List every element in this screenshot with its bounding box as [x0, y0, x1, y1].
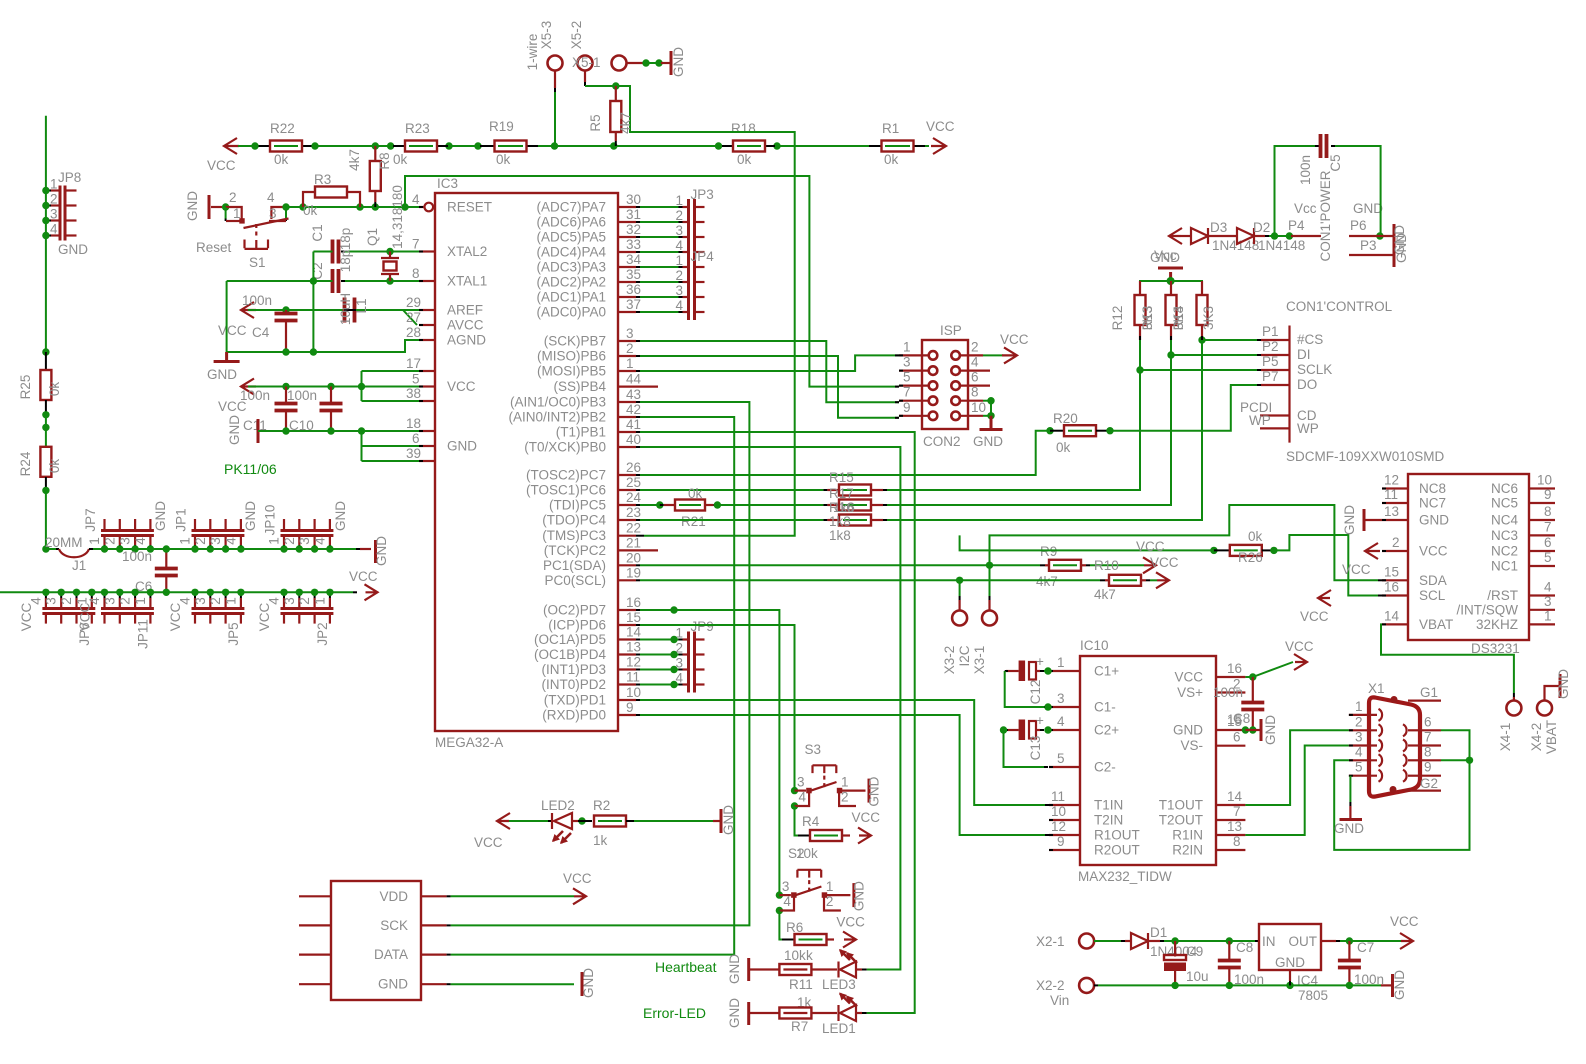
VCC arrow ISP: [983, 354, 1003, 356]
capacitor C13: [1019, 720, 1026, 741]
svg-text:VCC: VCC: [836, 915, 865, 930]
svg-text:C2-: C2-: [1094, 760, 1116, 775]
op-amp U2 DS3231 box: [1408, 474, 1529, 640]
svg-text:C12: C12: [1028, 680, 1043, 705]
svg-text:1: 1: [223, 597, 238, 605]
svg-text:VCC: VCC: [218, 323, 247, 338]
svg-text:12: 12: [1051, 819, 1066, 834]
svg-text:1: 1: [178, 537, 193, 545]
svg-text:100n: 100n: [287, 388, 317, 403]
svg-text:11: 11: [1051, 789, 1065, 804]
svg-text:C1+: C1+: [1094, 664, 1119, 679]
IC3 left pin 39: [419, 460, 435, 462]
capacitor C8 100n: [1228, 941, 1230, 960]
svg-text:Vcc: Vcc: [1294, 201, 1317, 216]
svg-text:1: 1: [1057, 655, 1065, 670]
resistor R15: [640, 519, 823, 521]
svg-text:AREF: AREF: [447, 303, 483, 318]
svg-text:R18: R18: [731, 121, 756, 136]
svg-text:NC4: NC4: [1491, 513, 1518, 528]
svg-text:(RXD)PD0: (RXD)PD0: [542, 708, 606, 723]
wire PB1 to LED1: [640, 432, 915, 1013]
svg-text:Vcc: Vcc: [1154, 248, 1177, 263]
svg-text:100n: 100n: [240, 388, 270, 403]
svg-text:0k: 0k: [274, 152, 289, 167]
svg-text:1: 1: [826, 879, 834, 894]
wire 7805 out: [1321, 940, 1336, 942]
svg-text:12: 12: [1384, 473, 1399, 488]
svg-text:X3-1: X3-1: [972, 646, 987, 675]
svg-text:JP8: JP8: [58, 170, 81, 185]
svg-text:Vin: Vin: [1050, 993, 1069, 1008]
resistor R14 3k3: [1201, 281, 1203, 295]
IC3 right pin 13 (OC1B)PD4: [618, 653, 636, 655]
IC3 right pin 37 (ADC0)PA0: [618, 311, 636, 313]
svg-text:1N4148: 1N4148: [1258, 238, 1305, 253]
svg-text:VBAT: VBAT: [1419, 617, 1453, 632]
header JP10: [281, 531, 334, 536]
svg-text:+: +: [1036, 713, 1044, 728]
svg-text:GND: GND: [153, 501, 168, 531]
svg-text:35: 35: [626, 267, 641, 282]
wire SDA staircase to DS3231: [990, 505, 1379, 580]
svg-text:(ADC5)PA5: (ADC5)PA5: [536, 230, 606, 245]
svg-text:(MOSI)PB5: (MOSI)PB5: [537, 364, 606, 379]
IC3 right pin 30 (ADC7)PA7: [618, 206, 636, 208]
svg-text:3: 3: [676, 223, 684, 238]
svg-text:7: 7: [1233, 804, 1241, 819]
capacitor C4: [275, 314, 298, 321]
svg-text:(SS)PB4: (SS)PB4: [553, 379, 606, 394]
VCC arrow diode chain: [1169, 228, 1182, 244]
MAX232 left pin 4 C2+: [1049, 729, 1080, 731]
svg-text:VCC: VCC: [1285, 639, 1314, 654]
diode D3 1N4148: [1181, 235, 1191, 237]
svg-text:32KHZ: 32KHZ: [1476, 617, 1518, 632]
JP8 pin 3: [50, 219, 60, 221]
svg-text:R2IN: R2IN: [1172, 843, 1203, 858]
resistor R12 3k3: [1139, 281, 1141, 295]
svg-text:VCC: VCC: [78, 603, 93, 632]
sensor pin DATA: [299, 953, 331, 955]
svg-text:VCC: VCC: [563, 871, 592, 886]
op-amp U5 7805 box: [1259, 924, 1321, 970]
MAX232 right pin 14 T1OUT: [1216, 804, 1245, 806]
svg-text:7: 7: [1424, 730, 1432, 745]
IC3 left pin 4 RESET: [419, 206, 425, 208]
wire left vertical JP8: [45, 116, 47, 352]
svg-text:1: 1: [676, 253, 684, 268]
resistor R8: [374, 146, 376, 161]
svg-text:44: 44: [626, 372, 642, 387]
gnd symbol X5: [627, 62, 644, 64]
wire R25 to R24: [45, 415, 47, 447]
DS3231 left pin 11 NC7: [1382, 502, 1408, 504]
resistor R9: [1040, 564, 1045, 566]
svg-text:2: 2: [676, 208, 684, 223]
capacitor C9 10u electrolytic: [1174, 941, 1176, 957]
gnd symbol S3: [868, 779, 871, 803]
wire PD7 to switch S2: [640, 610, 779, 895]
svg-text:11: 11: [1384, 487, 1398, 502]
svg-text:VCC: VCC: [1419, 544, 1448, 559]
wire reset net: [282, 203, 289, 210]
wire VCC rail: [238, 145, 270, 147]
IC3 left pin 7 XTAL2: [419, 250, 435, 252]
svg-text:1: 1: [267, 537, 282, 545]
DS3231 left pin 12 NC8: [1382, 487, 1408, 489]
MAX232 right pin 16 VCC: [1216, 676, 1245, 678]
svg-text:10uH: 10uH: [338, 293, 353, 325]
svg-text:16: 16: [1384, 580, 1399, 595]
svg-text:(AIN0/INT2)PB2: (AIN0/INT2)PB2: [508, 410, 606, 425]
wire 7805 gnd pin: [1289, 970, 1291, 981]
svg-text:38: 38: [406, 386, 421, 401]
resistor R24: [40, 447, 51, 477]
wire PD1 TXD to T1IN: [640, 700, 1045, 805]
pad X2-2: [1079, 978, 1094, 993]
IC3 right pin 24 (TDI)PC5: [618, 504, 636, 506]
capacitor C7 100n: [1348, 941, 1350, 960]
wire diode to P4: [1254, 235, 1265, 237]
svg-text:2: 2: [282, 537, 297, 545]
svg-text:VCC: VCC: [168, 603, 183, 632]
resistor R20: [1046, 427, 1053, 434]
IC3 right pin 26 (TOSC2)PC7: [618, 474, 636, 476]
resistor R6: [779, 911, 782, 940]
svg-text:0k: 0k: [1056, 440, 1071, 455]
wire D1 to 7805: [1148, 940, 1160, 942]
wire PC7 to R20: [640, 431, 1048, 475]
svg-text:2: 2: [841, 790, 849, 805]
wire ground rail PSU: [1094, 984, 1098, 986]
svg-text:23: 23: [626, 505, 641, 520]
svg-text:P1: P1: [1262, 324, 1279, 339]
svg-text:1k8: 1k8: [829, 528, 851, 543]
svg-text:7: 7: [903, 385, 911, 400]
svg-text:ISP: ISP: [940, 323, 962, 338]
svg-text:VCC: VCC: [1390, 914, 1419, 929]
resistor R25: [42, 348, 49, 355]
svg-text:S3: S3: [805, 742, 822, 757]
svg-text:20: 20: [626, 550, 641, 565]
svg-text:CON2: CON2: [923, 434, 961, 449]
svg-text:2: 2: [1355, 714, 1363, 729]
header JP8: [60, 186, 65, 241]
svg-text:(ADC6)PA6: (ADC6)PA6: [536, 215, 606, 230]
resistor R16: [717, 504, 823, 506]
X1 G2 stub: [1405, 789, 1441, 791]
svg-text:20MM: 20MM: [45, 535, 83, 550]
svg-text:/INT/SQW: /INT/SQW: [1457, 602, 1519, 617]
svg-text:G2: G2: [1420, 776, 1438, 791]
svg-text:GND: GND: [727, 998, 742, 1028]
pad X3-2: [952, 611, 967, 626]
svg-text:6: 6: [1544, 535, 1552, 550]
connector CON1'POWER P6 P3: [1376, 232, 1383, 239]
svg-text:R26: R26: [1238, 550, 1263, 565]
svg-text:X2-2: X2-2: [1036, 978, 1065, 993]
svg-text:VS-: VS-: [1180, 738, 1203, 753]
svg-text:33: 33: [626, 237, 641, 252]
svg-text:X5-2: X5-2: [569, 21, 584, 50]
svg-text:7805: 7805: [1298, 988, 1328, 1003]
svg-text:(TDO)PC4: (TDO)PC4: [542, 513, 606, 528]
svg-text:P6: P6: [1350, 218, 1367, 233]
diode D1 1N4004: [1131, 933, 1148, 949]
svg-text:L1: L1: [354, 298, 369, 313]
resistor R21: [640, 504, 660, 506]
svg-text:NC1: NC1: [1491, 559, 1518, 574]
op-amp U3 MAX232 box: [1080, 656, 1216, 865]
DS3231 right pin 7 NC3: [1529, 534, 1555, 536]
wire PB3 to sensor SCK: [451, 402, 750, 925]
pad X4-1: [1506, 701, 1521, 716]
svg-text:0k: 0k: [393, 152, 408, 167]
wire to upper jumper rail: [46, 490, 56, 549]
IC3 right pin 14 (OC1A)PD5: [618, 638, 636, 640]
svg-text:(TCK)PC2: (TCK)PC2: [544, 543, 606, 558]
svg-text:GND: GND: [721, 805, 736, 835]
VCC arrow top-right: [931, 138, 946, 154]
svg-text:P7: P7: [1262, 369, 1279, 384]
svg-text:41: 41: [626, 417, 641, 432]
svg-text:MAX232_TIDW: MAX232_TIDW: [1078, 869, 1172, 884]
svg-text:GND: GND: [333, 501, 348, 531]
svg-text:GND: GND: [1353, 201, 1383, 216]
svg-text:10k: 10k: [784, 948, 806, 963]
svg-text:1: 1: [676, 193, 684, 208]
IC3 right pin 25 (TOSC1)PC6: [618, 489, 636, 491]
svg-text:37: 37: [626, 297, 641, 312]
wire lower jumper rail VCC: [0, 591, 353, 593]
svg-text:1: 1: [233, 206, 241, 221]
MAX232 left pin 11 T1IN: [1049, 804, 1080, 806]
resistor R2: [573, 820, 578, 822]
IC3 right pin 42 (AIN0/INT2)PB2: [618, 416, 636, 418]
svg-text:3: 3: [782, 879, 790, 894]
svg-text:JP7: JP7: [83, 508, 98, 531]
diode D2 1N4148: [1208, 235, 1237, 237]
wire PB7 SCK to ISP7: [640, 341, 899, 402]
IC3 left pin 27 AVCC: [419, 324, 435, 326]
svg-text:P5: P5: [1262, 354, 1279, 369]
ISP pin 4: [951, 366, 960, 375]
svg-text:LED3: LED3: [822, 977, 856, 992]
svg-text:8: 8: [1424, 744, 1432, 759]
IC3 left pin 6 GND: [419, 445, 435, 447]
VCC arrow bypass: [241, 379, 256, 395]
svg-text:VCC: VCC: [1174, 670, 1203, 685]
svg-text:8: 8: [971, 385, 979, 400]
header JP1: [192, 531, 245, 536]
svg-text:5: 5: [412, 372, 420, 387]
svg-text:R24: R24: [18, 451, 33, 476]
svg-text:R20: R20: [1053, 411, 1078, 426]
svg-text:S1: S1: [249, 255, 266, 270]
svg-text:(ADC0)PA0: (ADC0)PA0: [536, 305, 606, 320]
svg-text:JP3: JP3: [691, 187, 714, 202]
svg-text:6: 6: [1233, 730, 1241, 745]
svg-text:T2IN: T2IN: [1094, 813, 1123, 828]
gnd symbol ISP: [980, 416, 1003, 430]
X1 pin 8: [1408, 759, 1419, 761]
svg-text:X5-3: X5-3: [539, 21, 554, 50]
svg-text:VCC: VCC: [1150, 555, 1179, 570]
wire PB2 to sensor DATA: [451, 417, 735, 955]
svg-text:9: 9: [1424, 760, 1432, 775]
svg-text:GND: GND: [447, 439, 477, 454]
svg-text:XTAL1: XTAL1: [447, 274, 487, 289]
svg-text:VCC: VCC: [257, 603, 272, 632]
capacitor C9 100n: [1252, 677, 1254, 701]
MAX232 left pin 12 R1OUT: [1049, 834, 1080, 836]
resistor R1: [869, 145, 881, 147]
ISP pin 6: [951, 381, 960, 390]
IC3 right pin 22 (TMS)PC3: [618, 535, 636, 537]
svg-text:3: 3: [44, 597, 59, 605]
svg-text:4: 4: [676, 298, 684, 313]
svg-text:JP5: JP5: [226, 622, 241, 645]
svg-text:VBAT: VBAT: [1544, 720, 1559, 754]
svg-text:G1: G1: [1420, 685, 1438, 700]
wire R15 to SD P1: [887, 340, 1257, 520]
svg-text:0k: 0k: [496, 152, 511, 167]
connector CON1'POWER P4: [1291, 235, 1321, 237]
svg-text:10k: 10k: [796, 846, 818, 861]
svg-text:R7: R7: [791, 1019, 808, 1034]
X1 pin 4: [1349, 759, 1377, 761]
wire GND pins: [258, 430, 419, 432]
header JP3: [689, 199, 695, 260]
wire VCC pins: [248, 386, 419, 388]
svg-text:2: 2: [102, 537, 117, 545]
svg-text:GND: GND: [185, 191, 200, 221]
svg-text:T2OUT: T2OUT: [1159, 813, 1203, 828]
VCC arrow SCL: [1318, 590, 1331, 606]
svg-text:15: 15: [626, 610, 641, 625]
svg-text:DO: DO: [1297, 377, 1317, 392]
gnd symbol heartbeat: [747, 958, 750, 981]
inductor L1: [345, 298, 355, 323]
svg-text:R4: R4: [802, 814, 820, 829]
svg-text:1: 1: [903, 339, 911, 354]
IC3 right pin 34 (ADC3)PA3: [618, 266, 636, 268]
op-amp U4 sensor box: [331, 881, 421, 1000]
DS3231 right pin 6 NC2: [1529, 550, 1555, 552]
wire gnd to switch: [211, 206, 222, 208]
svg-text:10u: 10u: [1186, 969, 1209, 984]
IC3 right pin 41 (T1)PB1: [618, 431, 636, 433]
wire R26 to DS3231 SCL: [1274, 535, 1378, 596]
svg-text:17: 17: [406, 356, 421, 371]
wire PD6 to switch S3: [640, 625, 795, 791]
VCC arrow top-left: [224, 138, 239, 154]
svg-text:6: 6: [412, 431, 420, 446]
svg-text:X1: X1: [1368, 681, 1385, 696]
sensor pin GND: [299, 983, 331, 985]
header JP11: [101, 609, 154, 614]
svg-text:14: 14: [1227, 789, 1243, 804]
JP8 pin 1: [50, 189, 60, 191]
svg-text:2: 2: [50, 192, 58, 207]
svg-text:15: 15: [1384, 564, 1399, 579]
svg-text:IC3: IC3: [437, 176, 458, 191]
SD pin WP: [1260, 427, 1290, 429]
svg-text:VCC: VCC: [1000, 332, 1029, 347]
svg-text:DI: DI: [1297, 347, 1311, 362]
svg-text:100n: 100n: [242, 293, 272, 308]
DS3231 right pin 4 /RST: [1529, 594, 1555, 596]
svg-text:R13: R13: [1140, 306, 1155, 331]
svg-text:9: 9: [626, 700, 634, 715]
svg-text:3: 3: [903, 355, 911, 370]
wire X5-2 net / 1-wire to PC3: [584, 71, 586, 83]
IC3 right pin 19 PC0(SCL): [618, 579, 636, 581]
svg-text:30: 30: [626, 192, 641, 207]
gnd-vcc symbol pullup rail: [1158, 268, 1183, 281]
IC3 right pin 2 (MISO)PB6: [618, 355, 636, 357]
svg-text:NC2: NC2: [1491, 544, 1518, 559]
IC3 left pin 29 AREF: [419, 309, 435, 311]
header JP6: [42, 609, 95, 614]
crystal Q1: [386, 248, 393, 255]
svg-text:3: 3: [1544, 594, 1552, 609]
IC3 right pin 33 (ADC4)PA4: [618, 251, 636, 253]
svg-text:R2: R2: [593, 798, 610, 813]
svg-text:PC0(SCL): PC0(SCL): [544, 573, 606, 588]
svg-text:1k8: 1k8: [829, 514, 851, 529]
svg-text:(INT1)PD3: (INT1)PD3: [541, 662, 606, 677]
svg-text:4: 4: [1057, 714, 1065, 729]
svg-text:R1: R1: [882, 121, 899, 136]
svg-text:GND: GND: [378, 977, 408, 992]
svg-text:VCC: VCC: [349, 569, 378, 584]
wires PA3-PA0 to JP4: [640, 266, 679, 268]
svg-text:1: 1: [312, 597, 327, 605]
svg-text:5: 5: [1544, 550, 1552, 565]
svg-text:(T1)PB1: (T1)PB1: [556, 425, 606, 440]
svg-text:1: 1: [133, 597, 148, 605]
svg-text:R2OUT: R2OUT: [1094, 843, 1140, 858]
svg-text:JP11: JP11: [136, 619, 151, 649]
svg-text:NC3: NC3: [1491, 528, 1518, 543]
DS3231 left pin 15 SDA: [1382, 579, 1408, 581]
svg-text:R14: R14: [1171, 305, 1186, 330]
X1 pin 6: [1408, 729, 1419, 731]
wire R1IN to X1 pin3: [1245, 746, 1349, 836]
svg-text:8: 8: [412, 266, 420, 281]
svg-text:CON1'POWER: CON1'POWER: [1318, 170, 1333, 261]
resistor R7: [749, 1012, 780, 1014]
wire reset to ISP5: [405, 176, 899, 387]
IC3 left pin 5 VCC: [419, 385, 435, 387]
svg-text:(MISO)PB6: (MISO)PB6: [537, 349, 606, 364]
svg-text:1k: 1k: [593, 833, 608, 848]
MAX232 left pin 3 C1-: [1049, 706, 1080, 708]
IC3 right pin 21 (TCK)PC2: [618, 549, 658, 551]
X1 pin 2: [1349, 729, 1377, 731]
MAX232 right pin 6 VS-: [1216, 745, 1245, 747]
VCC arrow R9: [1143, 557, 1156, 573]
svg-text:(AIN1/OC0)PB3: (AIN1/OC0)PB3: [510, 395, 606, 410]
svg-text:21: 21: [626, 535, 641, 550]
svg-text:4: 4: [1355, 744, 1363, 759]
svg-text:14: 14: [626, 625, 642, 640]
IC3 right pin 40 (T0/XCK)PB0: [618, 446, 636, 448]
gnd symbol reset: [208, 195, 211, 219]
svg-text:3: 3: [208, 537, 223, 545]
